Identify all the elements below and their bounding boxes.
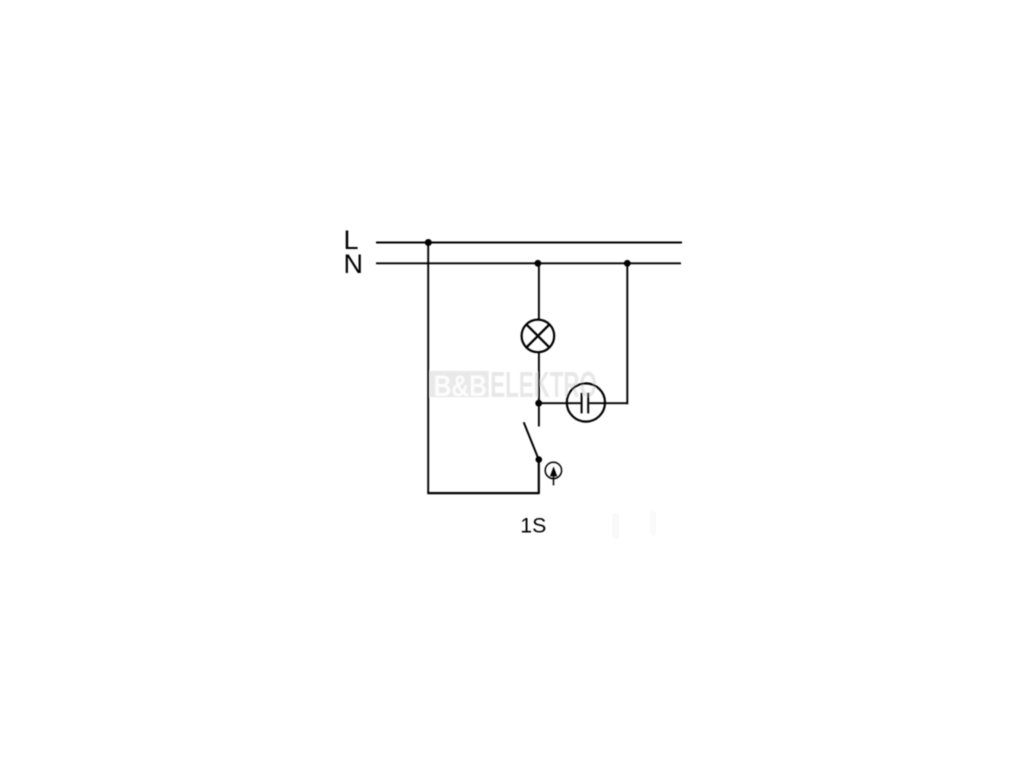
- lamp E1 circle: [522, 320, 555, 353]
- wire bottom return to switch: [427, 492, 539, 494]
- capacitor right plate: [587, 393, 589, 414]
- switch pivot dot: [536, 456, 543, 463]
- svg-text:B&B: B&B: [434, 369, 487, 403]
- faint watermark remnant 1: [612, 513, 619, 539]
- wire N neutral line: [376, 262, 681, 264]
- wire capacitor right lead: [589, 402, 627, 404]
- svg-text:1S: 1S: [520, 514, 546, 538]
- faint watermark remnant 2: [650, 511, 656, 536]
- pull cord circle: [545, 462, 561, 478]
- pull cord arrow head: [550, 466, 557, 476]
- switch blade S1: [524, 422, 539, 459]
- wire left vertical from L down: [427, 243, 429, 494]
- wire lamp to junction node: [538, 352, 540, 403]
- wire capacitor left lead: [539, 402, 581, 404]
- node junction on N at lamp branch: [535, 260, 542, 267]
- capacitor left plate: [581, 393, 583, 414]
- watermark B&B block: [430, 369, 489, 403]
- lamp E1 cross stroke 1: [526, 324, 549, 347]
- glow lamp capacitor circle: [567, 383, 605, 421]
- lamp E1 cross stroke 2: [526, 324, 549, 347]
- node junction on N at right branch: [624, 260, 631, 267]
- wire below switch pivot: [538, 460, 540, 494]
- wire switch fixed contact: [538, 403, 540, 426]
- wire from N down to lamp: [538, 263, 540, 320]
- pull cord shaft: [553, 470, 555, 485]
- wire L phase line: [376, 242, 682, 244]
- wire right vertical branch: [626, 263, 628, 404]
- node junction on L: [425, 239, 432, 246]
- node junction lamp/capacitor/switch: [535, 400, 542, 407]
- svg-text:N: N: [344, 249, 364, 279]
